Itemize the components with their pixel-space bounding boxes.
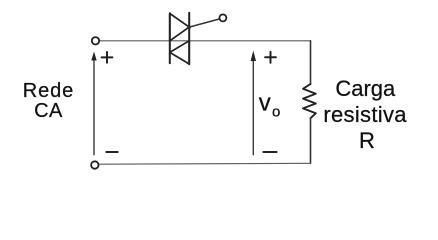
wire: right vertical bottom lead from resistor (310, 118, 312, 163)
polarity + of output (top middle) (265, 52, 276, 63)
triac: gate lead (189, 19, 219, 27)
polarity + of source (top left) (102, 52, 113, 63)
label: Carga resistiva R (resistive load) (323, 76, 407, 153)
svg-text:Carga: Carga (335, 76, 396, 101)
triac: lower triangle (170, 41, 189, 64)
triac: right bar (MT2 side) (188, 13, 190, 65)
svg-text:o: o (272, 104, 280, 121)
svg-text:R: R (359, 128, 375, 153)
label: vo (output voltage) (259, 90, 281, 121)
triac: upper triangle (170, 14, 189, 41)
wire: right vertical top lead to resistor (310, 41, 312, 84)
wire: bottom rail back to input terminal (99, 162, 310, 165)
wire: top rail from input terminal to right corner (100, 40, 311, 42)
triac: left bar (MT1 side) (169, 13, 171, 63)
svg-text:CA: CA (34, 100, 63, 122)
polarity - of output (bottom middle) (263, 151, 276, 153)
resistor R: zigzag (carga resistiva) (303, 84, 316, 118)
polarity - of source (bottom left) (106, 151, 117, 153)
svg-text:resistiva: resistiva (323, 102, 407, 127)
svg-text:Rede: Rede (23, 80, 74, 102)
node: AC input terminal top (open circle) (92, 37, 99, 44)
triac: gate junction dot (188, 25, 191, 28)
label: Rede CA (AC mains) (23, 80, 74, 122)
node: AC input terminal bottom (open circle) (91, 161, 98, 168)
source voltage arrow (Rede CA reference arrow) (91, 52, 96, 155)
node: gate terminal (open circle) (219, 14, 226, 21)
svg-text:v: v (259, 90, 271, 117)
output voltage arrow vo (251, 51, 256, 155)
